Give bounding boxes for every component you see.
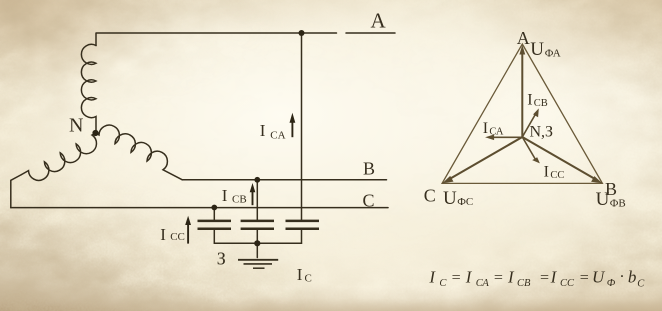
svg-text:C: C (363, 191, 375, 211)
svg-text:С: С (637, 279, 645, 290)
svg-text:U: U (443, 188, 457, 209)
wire line B (182, 179, 386, 181)
wire capacitor C1 bottom stem (213, 230, 215, 243)
svg-text:A: A (517, 28, 530, 48)
phasor vector U_PhA (519, 45, 525, 137)
svg-text:I: I (507, 267, 515, 286)
svg-text:I: I (297, 265, 303, 284)
svg-text:CA: CA (270, 129, 285, 141)
wire feeder phase C to capacitor C1 (213, 208, 215, 220)
svg-text:CC: CC (170, 231, 185, 243)
wire feeder phase B to capacitor C2 (256, 180, 258, 220)
wire top corner from winding A to line A (95, 33, 97, 46)
phasor current I_CB arrow (522, 108, 539, 137)
svg-text:·: · (620, 269, 624, 286)
wire feeder phase A to capacitor C3 (301, 33, 303, 220)
capacitor C2 plates (241, 221, 274, 229)
current arrow I_CB (250, 183, 256, 205)
svg-text:ФА: ФА (545, 47, 561, 59)
svg-text:U: U (592, 267, 606, 286)
svg-text:З: З (217, 249, 226, 269)
junction dot line A feeder (299, 30, 305, 36)
equation I_C = I_CA = I_CB = I_CC = U_Ph * b_C (428, 267, 645, 289)
svg-text:C: C (424, 185, 436, 205)
svg-text:=: = (493, 269, 504, 286)
junction dot ground bus (254, 240, 260, 246)
wire line A (97, 32, 396, 34)
svg-text:Ф: Ф (607, 278, 616, 289)
svg-text:b: b (628, 267, 637, 286)
ground symbol (238, 259, 278, 261)
svg-text:I: I (527, 92, 532, 109)
svg-text:ФС: ФС (457, 196, 473, 208)
current arrow I_CC (185, 216, 191, 244)
phasor triangle ABC (442, 44, 602, 183)
phasor current I_CC arrow (522, 137, 540, 163)
svg-text:I: I (465, 267, 473, 286)
wire left end of winding C to line C (11, 175, 22, 208)
svg-text:СС: СС (550, 170, 564, 181)
inductor winding phase C (21, 133, 96, 180)
current arrow I_CA (290, 113, 296, 137)
svg-text:I: I (222, 186, 228, 205)
phasor vector U_PhB (522, 137, 602, 183)
junction dot line B feeder (254, 177, 260, 183)
svg-text:B: B (363, 159, 375, 179)
svg-text:СС: СС (560, 278, 575, 289)
wire ground stem (256, 243, 258, 257)
svg-text:N: N (69, 115, 83, 137)
svg-text:=: = (539, 269, 550, 286)
svg-text:СВ: СВ (517, 278, 531, 289)
svg-text:C: C (305, 273, 312, 285)
svg-text:I: I (160, 225, 166, 244)
svg-text:I: I (260, 121, 266, 140)
svg-text:=: = (579, 269, 590, 286)
svg-text:N,З: N,З (530, 124, 554, 141)
svg-text:U: U (596, 189, 610, 210)
capacitor C1 plates (198, 221, 232, 229)
capacitor C3 plates (286, 221, 320, 229)
phasor current I_CA arrow (485, 135, 522, 141)
phasor vector U_PhC (442, 137, 522, 183)
svg-text:I: I (483, 120, 488, 137)
wire capacitor C3 bottom stem (301, 230, 303, 243)
svg-text:U: U (530, 39, 544, 60)
svg-text:CB: CB (232, 193, 247, 205)
inductor winding phase A (81, 44, 96, 133)
node N junction dot (92, 130, 98, 136)
svg-text:I: I (550, 267, 558, 286)
svg-text:I: I (428, 267, 436, 286)
svg-text:СВ: СВ (534, 98, 548, 109)
svg-text:ФВ: ФВ (610, 198, 626, 210)
junction dot line C feeder (211, 205, 217, 211)
svg-text:=: = (451, 269, 462, 286)
wire line C (11, 207, 388, 209)
svg-text:A: A (371, 9, 387, 33)
svg-text:СА: СА (489, 127, 503, 138)
svg-text:С: С (439, 278, 447, 289)
wire capacitor C2 bottom stem (256, 230, 258, 243)
svg-text:СА: СА (476, 278, 490, 289)
inductor winding phase B (96, 125, 183, 180)
wire ground bus (214, 242, 301, 244)
svg-text:I: I (544, 164, 549, 181)
